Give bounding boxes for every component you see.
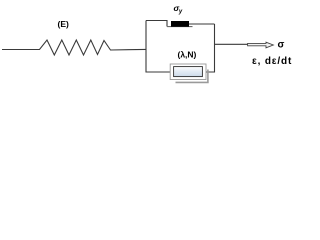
svg-text:y: y: [178, 9, 183, 15]
svg-text:(λ,N): (λ,N): [178, 50, 197, 60]
svg-text:(E): (E): [58, 19, 70, 29]
svg-text:ε, dε/dt: ε, dε/dt: [252, 56, 292, 67]
svg-text:σ: σ: [278, 40, 285, 51]
